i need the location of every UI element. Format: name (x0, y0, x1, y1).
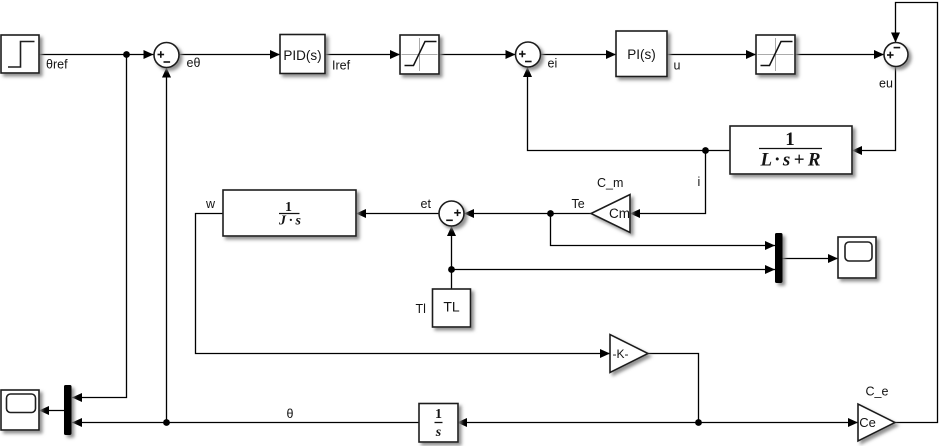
svg-text:et: et (421, 197, 432, 211)
svg-text:Tl: Tl (416, 302, 426, 316)
svg-text:Iref: Iref (332, 59, 351, 73)
svg-text:ei: ei (548, 57, 558, 71)
svg-text:i: i (698, 175, 701, 189)
svg-text:w: w (205, 197, 216, 211)
svg-text:C_e: C_e (866, 385, 889, 399)
svg-text:C_m: C_m (597, 176, 623, 190)
svg-text:-K-: -K- (613, 347, 629, 361)
svg-text:1: 1 (435, 407, 442, 422)
svg-text:J · s: J · s (278, 214, 302, 229)
svg-text:θ: θ (287, 407, 294, 421)
svg-text:L · s + R: L · s + R (760, 150, 821, 171)
svg-text:TL: TL (443, 299, 460, 315)
svg-text:s: s (435, 425, 442, 440)
svg-text:1: 1 (785, 129, 795, 150)
svg-text:PID(s): PID(s) (283, 48, 321, 63)
svg-text:Te: Te (572, 197, 585, 211)
svg-text:Ce: Ce (859, 415, 876, 430)
svg-text:eu: eu (879, 77, 893, 91)
svg-text:u: u (674, 59, 681, 73)
svg-text:Cm: Cm (609, 206, 630, 221)
svg-text:eθ: eθ (187, 56, 201, 70)
svg-text:θref: θref (46, 58, 68, 72)
svg-text:PI(s): PI(s) (627, 47, 656, 62)
